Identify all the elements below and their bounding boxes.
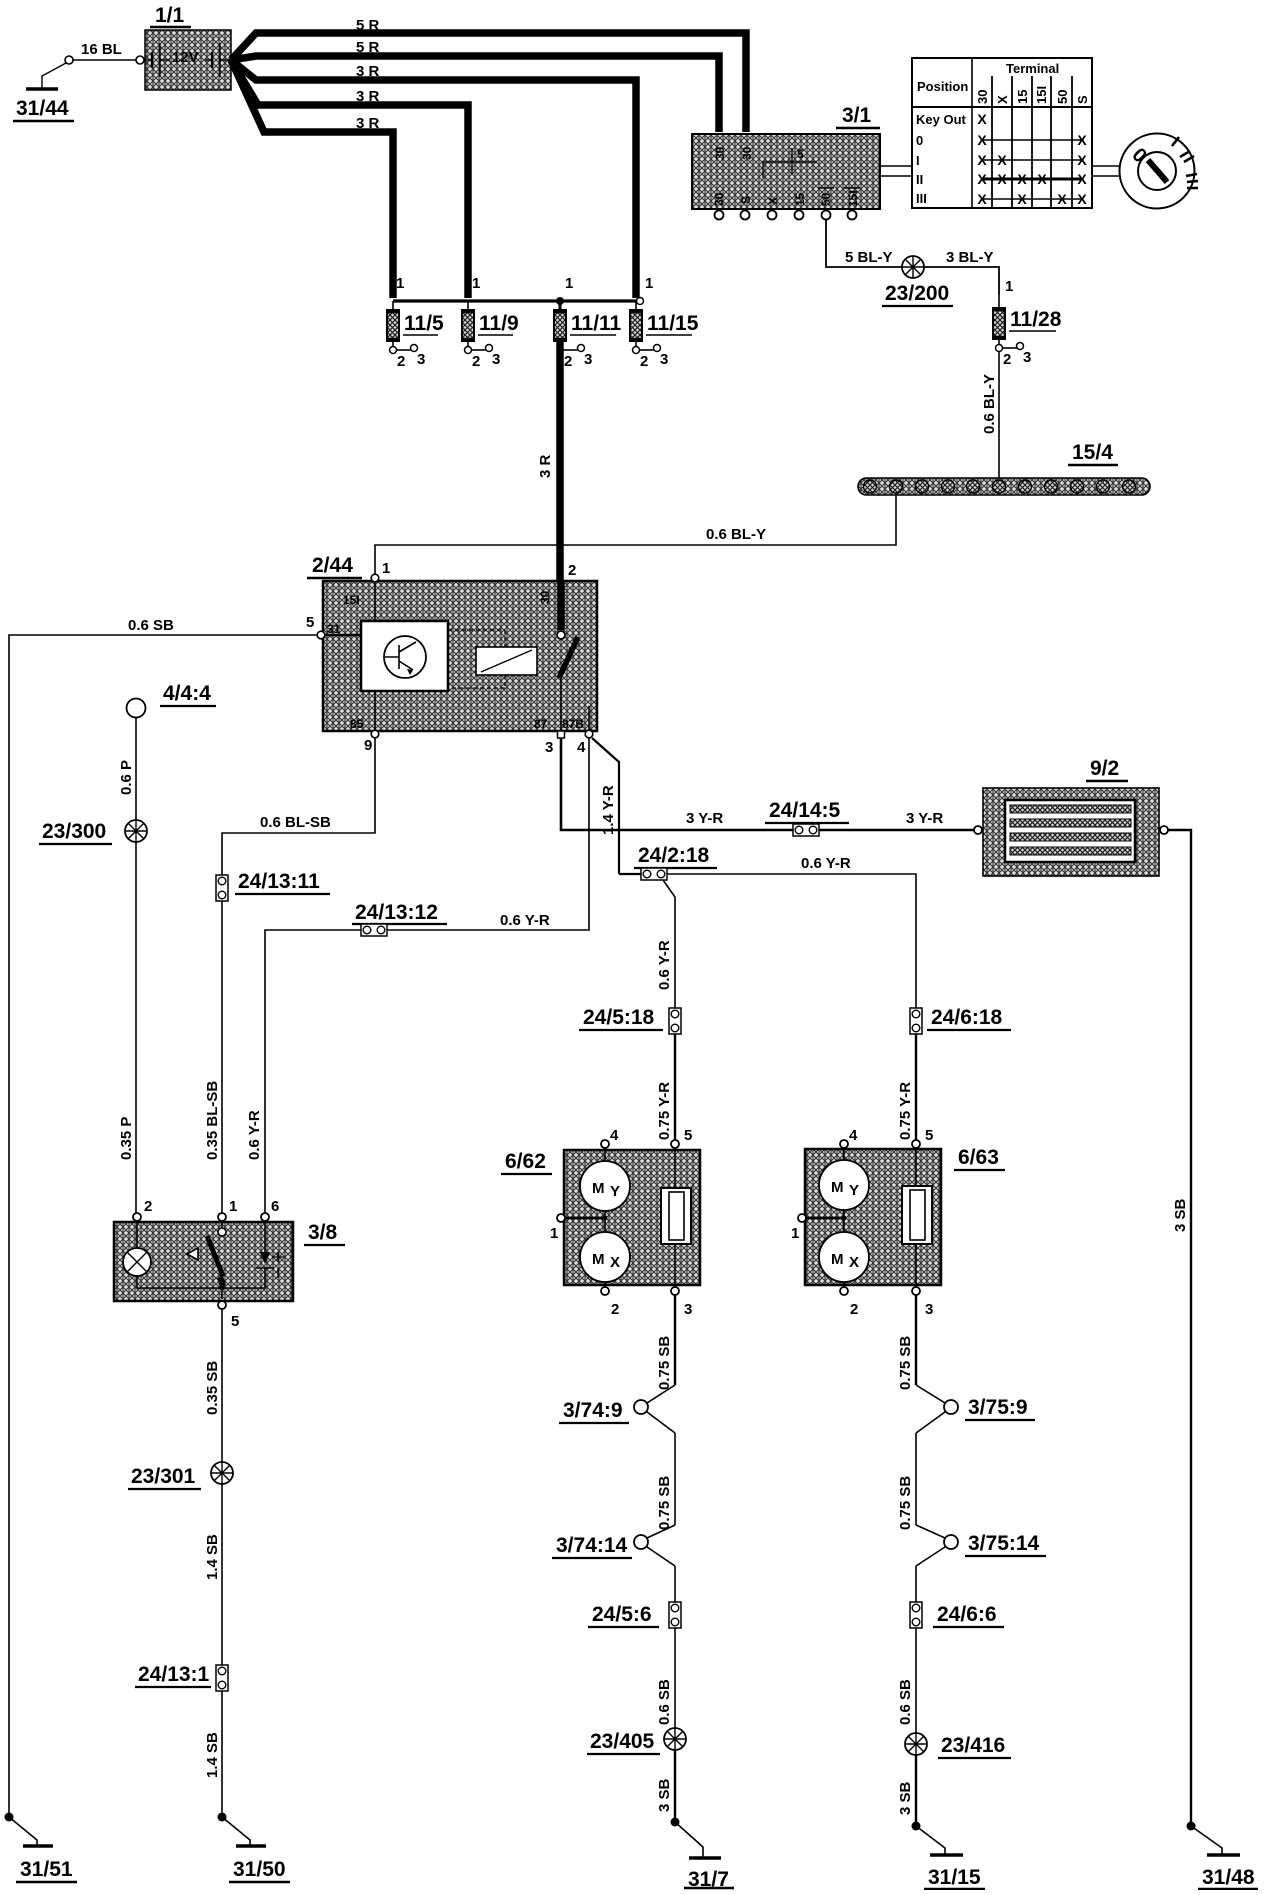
svg-text:15/4: 15/4	[1072, 441, 1113, 464]
2/44 pin circles	[306, 560, 593, 756]
connector 24/6:6 label	[933, 1603, 1004, 1627]
svg-text:Y: Y	[849, 1182, 859, 1199]
wire 0.35 P to 3/8 pin 2	[118, 842, 136, 1213]
terminal table	[912, 58, 1092, 208]
fuse bus wire	[393, 297, 644, 305]
svg-text:2: 2	[144, 1198, 152, 1215]
svg-text:X: X	[1077, 171, 1087, 187]
svg-text:12V: 12V	[172, 49, 199, 66]
fuse 11/5	[387, 275, 444, 370]
svg-text:15I: 15I	[846, 190, 860, 207]
svg-text:15I: 15I	[1034, 86, 1049, 104]
svg-text:6: 6	[271, 1198, 279, 1215]
svg-text:15: 15	[793, 192, 807, 206]
svg-text:11/15: 11/15	[647, 312, 699, 335]
svg-text:3: 3	[925, 1301, 933, 1318]
svg-text:1: 1	[565, 275, 573, 292]
svg-text:0.35 SB: 0.35 SB	[204, 1361, 221, 1415]
relay 2/44 label	[307, 554, 362, 578]
ground 31/44	[13, 63, 74, 121]
svg-text:87: 87	[534, 717, 548, 731]
battery terminal circle	[136, 56, 144, 64]
svg-text:3/75:9: 3/75:9	[968, 1396, 1028, 1419]
connector 24/2:18 label	[634, 844, 717, 868]
svg-text:1.4 SB: 1.4 SB	[204, 1732, 221, 1778]
svg-text:2: 2	[850, 1301, 858, 1318]
wire 0.6 P	[118, 718, 136, 820]
svg-text:30: 30	[975, 90, 990, 104]
svg-text:4: 4	[610, 1127, 619, 1144]
ground 31/51	[5, 1813, 78, 1883]
svg-text:30: 30	[713, 146, 727, 160]
splice 23/405	[587, 1728, 686, 1754]
svg-text:16 BL: 16 BL	[81, 41, 122, 58]
svg-text:3 Y-R: 3 Y-R	[906, 810, 943, 827]
svg-text:3 BL-Y: 3 BL-Y	[946, 249, 994, 266]
svg-text:Terminal: Terminal	[1006, 61, 1059, 76]
svg-text:15I: 15I	[343, 593, 360, 607]
svg-text:1: 1	[791, 1225, 799, 1242]
svg-text:X: X	[1017, 171, 1027, 187]
wire 3R to fuse 11/9	[231, 60, 468, 298]
svg-text:31/7: 31/7	[688, 1868, 729, 1890]
wire 0.6 BL-Y 15/4 to relay 2/44 pin 1	[375, 495, 896, 578]
svg-text:0: 0	[916, 133, 923, 148]
ignition key symbol	[1120, 134, 1199, 209]
svg-text:2: 2	[640, 353, 648, 370]
svg-text:X: X	[1077, 191, 1087, 207]
connector 24/13:1	[216, 1665, 228, 1691]
wire 0.6 Y-R to 3/8 pin 6	[246, 930, 361, 1213]
terminal strip 15/4	[858, 478, 1150, 495]
svg-text:30: 30	[740, 146, 754, 160]
svg-text:X: X	[997, 152, 1007, 168]
svg-text:2: 2	[397, 353, 405, 370]
splice 23/200	[882, 256, 953, 306]
door mirror 6/63 label	[954, 1146, 1005, 1170]
svg-text:31/15: 31/15	[928, 1866, 981, 1889]
svg-text:5 R: 5 R	[356, 17, 380, 34]
svg-text:11/11: 11/11	[571, 312, 622, 335]
wire 3 Y-R from 2/44 pin3	[561, 738, 974, 830]
svg-text:X: X	[1057, 191, 1067, 207]
svg-text:3: 3	[417, 351, 425, 368]
connector 24/13:11 label	[235, 870, 330, 894]
svg-text:3 R: 3 R	[537, 454, 554, 478]
wire 5R second to 3/1	[231, 39, 719, 132]
svg-text:3: 3	[584, 351, 592, 368]
svg-text:1.4 Y-R: 1.4 Y-R	[600, 785, 617, 835]
svg-text:3 SB: 3 SB	[656, 1778, 673, 1812]
svg-text:31/51: 31/51	[20, 1858, 73, 1881]
svg-text:5: 5	[231, 1313, 239, 1330]
svg-text:3 SB: 3 SB	[897, 1781, 914, 1815]
wire to 24/6:6	[915, 1566, 917, 1602]
svg-text:3 Y-R: 3 Y-R	[686, 810, 723, 827]
svg-text:II: II	[916, 172, 923, 187]
svg-text:M: M	[592, 1180, 605, 1197]
svg-text:1: 1	[472, 275, 480, 292]
svg-text:3/74:14: 3/74:14	[556, 1534, 628, 1557]
svg-text:0.6 SB: 0.6 SB	[656, 1679, 673, 1725]
ignition switch 3/1 label	[836, 104, 880, 128]
svg-text:2: 2	[472, 353, 480, 370]
svg-text:Key Out: Key Out	[916, 112, 967, 127]
ground 31/50	[218, 1813, 291, 1883]
svg-text:1: 1	[396, 275, 404, 292]
connector 24/13:1 label	[135, 1663, 211, 1687]
connector 24/5:6 label	[588, 1603, 659, 1627]
svg-text:31/44: 31/44	[16, 97, 69, 120]
svg-text:5: 5	[306, 614, 314, 631]
svg-text:X: X	[1017, 191, 1027, 207]
svg-text:0.6 Y-R: 0.6 Y-R	[246, 1110, 263, 1160]
svg-text:24/5:18: 24/5:18	[583, 1006, 655, 1029]
svg-text:24/13:11: 24/13:11	[238, 870, 320, 893]
wire 0.6 SB	[656, 1628, 675, 1728]
connector 3/74:14	[552, 1525, 675, 1566]
wire 0.35 SB from 3/8 pin5	[204, 1309, 222, 1462]
svg-text:30: 30	[538, 590, 552, 604]
battery 1/1 label	[150, 4, 191, 27]
svg-text:6/63: 6/63	[958, 1146, 999, 1169]
wire 0.6 SB	[897, 1628, 916, 1733]
svg-text:0.6 Y-R: 0.6 Y-R	[801, 855, 851, 872]
svg-text:1: 1	[645, 275, 653, 292]
wire 5R to 3/1 pin30 top	[231, 17, 746, 132]
svg-text:3: 3	[545, 739, 553, 756]
svg-text:X: X	[849, 1254, 859, 1271]
svg-text:3/8: 3/8	[308, 1221, 338, 1244]
svg-text:Y: Y	[610, 1183, 620, 1200]
door mirror 6/62 label	[501, 1150, 552, 1174]
wire 0.35 BL-SB to 3/8 pin 1	[204, 901, 222, 1213]
heated rear window 9/2	[974, 788, 1168, 876]
svg-text:X: X	[1077, 132, 1087, 148]
svg-text:0.75 Y-R: 0.75 Y-R	[656, 1082, 673, 1140]
wire 5 BL-Y from 3/1	[826, 219, 902, 267]
wire 0.75 SB from 6/62 pin3	[656, 1295, 675, 1390]
wire 3 SB from 9/2 to ground 31/48	[1168, 830, 1191, 1826]
svg-text:23/301: 23/301	[131, 1465, 196, 1488]
svg-text:23/200: 23/200	[885, 282, 949, 305]
wire 0.75 SB	[656, 1433, 675, 1530]
svg-text:3: 3	[660, 351, 668, 368]
table to key double link	[1092, 166, 1121, 176]
svg-text:M: M	[831, 1251, 844, 1268]
svg-text:1: 1	[1005, 278, 1013, 295]
svg-text:3 R: 3 R	[356, 88, 380, 105]
svg-text:Position: Position	[917, 79, 968, 94]
svg-text:5: 5	[797, 147, 804, 161]
wire 0.75 Y-R to 6/63 pin 5	[897, 1034, 916, 1141]
svg-text:85: 85	[350, 717, 364, 731]
svg-text:0.6 SB: 0.6 SB	[128, 617, 174, 634]
splice 23/300	[39, 820, 147, 844]
svg-text:4: 4	[849, 1127, 858, 1144]
ground 31/48	[1187, 1822, 1259, 1890]
wire 0.6 Y-R 24/2:18 branch to 6/62	[656, 880, 675, 1008]
svg-text:4: 4	[577, 739, 586, 756]
svg-text:5: 5	[684, 1127, 692, 1144]
svg-text:0.6 BL-Y: 0.6 BL-Y	[981, 374, 998, 434]
svg-text:S: S	[739, 196, 753, 204]
wire 3 BL-Y to 11/28	[924, 249, 1013, 295]
svg-text:9/2: 9/2	[1090, 757, 1119, 780]
door mirror 6/62	[564, 1148, 700, 1288]
svg-text:X: X	[1037, 171, 1047, 187]
connector 3/74:9	[559, 1385, 675, 1433]
svg-text:3 R: 3 R	[356, 63, 380, 80]
connector 24/13:12 label	[352, 901, 447, 924]
relay 2/44	[323, 581, 597, 731]
svg-text:X: X	[766, 197, 780, 205]
connector 24/13:12	[361, 924, 387, 936]
svg-text:3: 3	[684, 1301, 692, 1318]
wire 0.6 BL-SB from 2/44 pin9	[222, 738, 375, 875]
6/63 pin circles	[791, 1127, 933, 1318]
svg-text:23/300: 23/300	[42, 820, 106, 843]
svg-text:24/5:6: 24/5:6	[592, 1603, 652, 1626]
svg-text:0.75 SB: 0.75 SB	[656, 1336, 673, 1390]
svg-text:X: X	[977, 152, 987, 168]
svg-text:15: 15	[1015, 90, 1030, 104]
svg-text:50: 50	[1055, 90, 1070, 104]
wire to 24/5:6	[674, 1566, 676, 1602]
connector 24/14:5 label	[765, 799, 849, 823]
svg-text:3: 3	[492, 351, 500, 368]
heated rear window 9/2 label	[1086, 757, 1128, 781]
svg-text:X: X	[997, 171, 1007, 187]
svg-text:87B: 87B	[562, 717, 584, 731]
svg-text:0.35 BL-SB: 0.35 BL-SB	[204, 1081, 221, 1160]
connector 4/4:4	[127, 699, 146, 718]
connector 24/6:18 label	[927, 1006, 1011, 1030]
svg-text:0.6 Y-R: 0.6 Y-R	[656, 940, 673, 990]
connector 24/14:5	[793, 824, 819, 836]
svg-text:0.75 Y-R: 0.75 Y-R	[897, 1082, 914, 1140]
wire 3R to fuse 11/15	[231, 60, 636, 298]
connector 24/13:11	[216, 875, 228, 901]
svg-text:2: 2	[611, 1301, 619, 1318]
3/1 to table double link	[880, 166, 912, 176]
svg-text:2: 2	[1003, 351, 1011, 368]
svg-text:31/50: 31/50	[233, 1858, 286, 1881]
svg-text:11/9: 11/9	[479, 312, 519, 335]
svg-text:11/28: 11/28	[1010, 308, 1062, 331]
3/1 bottom pins	[715, 211, 857, 220]
wire 16 BL	[65, 41, 136, 64]
svg-text:6/62: 6/62	[505, 1150, 546, 1173]
svg-text:24/6:6: 24/6:6	[937, 1603, 997, 1626]
connector 24/2:18	[641, 868, 667, 880]
svg-text:5 BL-Y: 5 BL-Y	[845, 249, 893, 266]
svg-text:1: 1	[229, 1198, 237, 1215]
svg-text:X: X	[977, 171, 987, 187]
connector 24/5:6	[669, 1602, 681, 1628]
svg-text:9: 9	[364, 737, 372, 754]
svg-text:0.6 BL-Y: 0.6 BL-Y	[706, 526, 766, 543]
wire 0.75 SB	[897, 1433, 916, 1530]
svg-text:2: 2	[564, 353, 572, 370]
svg-text:0.6 Y-R: 0.6 Y-R	[500, 912, 550, 929]
svg-text:30: 30	[712, 192, 726, 206]
svg-text:3/75:14: 3/75:14	[968, 1532, 1040, 1555]
splice 23/416	[905, 1733, 1011, 1758]
wire 1.4 Y-R from 2/44 pin4 to 24/2:18	[592, 738, 641, 874]
svg-text:X: X	[610, 1254, 620, 1271]
svg-text:0.35 P: 0.35 P	[118, 1117, 135, 1160]
connector 24/6:18	[910, 1008, 922, 1034]
svg-text:III: III	[916, 191, 927, 206]
svg-text:4/4:4: 4/4:4	[163, 682, 211, 705]
svg-text:1/1: 1/1	[155, 4, 185, 27]
ignition switch 3/1	[692, 134, 880, 209]
svg-text:11/5: 11/5	[404, 312, 444, 335]
wire 3 SB to ground 31/7	[656, 1750, 675, 1822]
wire 3R to fuse 11/5	[231, 60, 393, 298]
svg-text:5: 5	[925, 1127, 933, 1144]
svg-text:0.6 SB: 0.6 SB	[897, 1679, 914, 1725]
connector 24/5:18 label	[579, 1006, 663, 1030]
svg-text:3 R: 3 R	[356, 115, 380, 132]
svg-text:X: X	[1077, 152, 1087, 168]
svg-text:3: 3	[1023, 349, 1031, 366]
svg-text:50: 50	[819, 192, 833, 206]
ground 31/7	[671, 1818, 735, 1892]
connector 3/75:9	[916, 1385, 1035, 1433]
svg-text:0.75 SB: 0.75 SB	[656, 1476, 673, 1530]
svg-text:24/13:1: 24/13:1	[138, 1663, 210, 1686]
svg-text:24/2:18: 24/2:18	[638, 844, 710, 867]
6/62 pin circles	[550, 1127, 692, 1318]
svg-text:2/44: 2/44	[312, 554, 353, 577]
connector 24/6:6	[910, 1602, 922, 1628]
svg-text:S: S	[1075, 95, 1090, 104]
battery 1/1	[140, 30, 231, 90]
svg-text:X: X	[977, 111, 987, 127]
connector 3/75:14	[916, 1525, 1046, 1566]
svg-text:0.6 P: 0.6 P	[118, 760, 135, 795]
svg-text:24/13:12: 24/13:12	[355, 901, 438, 924]
switch 3/8 label	[304, 1221, 345, 1245]
svg-text:24/6:18: 24/6:18	[931, 1006, 1003, 1029]
svg-text:1: 1	[550, 1225, 558, 1242]
svg-text:I: I	[916, 153, 920, 168]
wire 0.6 Y-R 24/2:18 to 6/63	[667, 855, 916, 1008]
wire 0.6 BL-Y 11/28 to 15/4	[981, 352, 999, 478]
wire 1.4 SB to ground 31/50	[204, 1691, 222, 1817]
splice 23/301	[128, 1462, 233, 1489]
wire 0.6 Y-R from 2/44 pin4 to 24/13:12	[387, 738, 589, 930]
wire 3R fuse 11/11 to relay 2/44 pin 2	[537, 341, 560, 634]
wire 0.75 SB from 6/63 pin3	[897, 1295, 916, 1390]
svg-text:23/416: 23/416	[941, 1734, 1005, 1757]
wire 0.6 SB from 2/44 pin5 to ground 31/51	[9, 617, 317, 1817]
wire 1.4 SB	[204, 1484, 222, 1665]
ground 31/15	[912, 1822, 986, 1890]
connector 4/4:4 label	[160, 682, 216, 706]
svg-text:23/405: 23/405	[590, 1730, 655, 1753]
svg-text:M: M	[831, 1179, 844, 1196]
svg-text:1.4 SB: 1.4 SB	[204, 1534, 221, 1580]
svg-text:X: X	[995, 95, 1010, 104]
svg-text:1: 1	[382, 560, 390, 577]
svg-text:2: 2	[568, 562, 576, 579]
svg-text:0.6 BL-SB: 0.6 BL-SB	[260, 814, 331, 831]
svg-text:0.75 SB: 0.75 SB	[897, 1476, 914, 1530]
connector 24/5:18	[669, 1008, 681, 1034]
svg-text:3/74:9: 3/74:9	[563, 1399, 623, 1422]
svg-text:24/14:5: 24/14:5	[769, 799, 841, 822]
switch 3/8	[114, 1221, 293, 1301]
terminal strip 15/4 label	[1068, 441, 1118, 465]
svg-text:X: X	[977, 132, 987, 148]
svg-text:X: X	[977, 191, 987, 207]
svg-text:0.75 SB: 0.75 SB	[897, 1336, 914, 1390]
svg-text:M: M	[592, 1251, 605, 1268]
svg-text:31/48: 31/48	[1202, 1866, 1255, 1889]
door mirror 6/63	[805, 1148, 941, 1288]
fuse 11/11	[554, 275, 622, 370]
wire 0.75 Y-R to 6/62 pin 5	[656, 1034, 675, 1141]
svg-text:3/1: 3/1	[842, 104, 872, 127]
fuse 11/9	[462, 275, 519, 370]
fuse 11/15	[630, 275, 699, 370]
wire 3 SB to ground 31/15	[897, 1755, 916, 1826]
svg-text:5 R: 5 R	[356, 39, 380, 56]
svg-text:3 SB: 3 SB	[1172, 1198, 1189, 1232]
connector 11/28	[993, 295, 1062, 368]
3/8 pin circles	[133, 1198, 279, 1330]
